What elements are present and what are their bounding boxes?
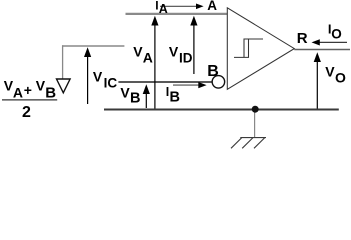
- voltage arrow VIC: [87, 55, 89, 104]
- svg-text:V: V: [36, 77, 46, 93]
- svg-text:A: A: [159, 2, 168, 16]
- current arrow IB: [173, 84, 200, 86]
- wire common-mode bracket vertical: [62, 45, 64, 79]
- svg-text:A: A: [207, 0, 217, 13]
- svg-text:V: V: [93, 68, 103, 84]
- svg-text:B: B: [170, 90, 180, 106]
- current arrow IO: [319, 41, 347, 43]
- svg-text:V: V: [169, 43, 179, 59]
- fraction bar: [2, 99, 57, 101]
- svg-text:V: V: [325, 63, 335, 79]
- current arrow IA: [160, 5, 197, 7]
- voltage arrow VID: [193, 24, 195, 74]
- voltage arrow VB: [145, 92, 147, 108]
- svg-text:ID: ID: [179, 50, 193, 65]
- svg-text:B: B: [130, 90, 140, 106]
- voltage arrow VO: [316, 60, 318, 109]
- svg-text:A: A: [143, 50, 153, 66]
- wire ground stem: [254, 111, 256, 138]
- svg-text:O: O: [335, 69, 346, 85]
- junction dot on ground rail: [252, 106, 259, 113]
- wire input B rail: [118, 81, 211, 83]
- ground symbol: [231, 138, 266, 149]
- svg-text:2: 2: [22, 104, 31, 121]
- wire bottom ground rail: [104, 108, 339, 110]
- svg-text:V: V: [120, 85, 130, 101]
- svg-text:A: A: [13, 84, 23, 100]
- wire common-mode bracket horizontal: [62, 45, 124, 47]
- inverting input bubble at B: [212, 76, 225, 89]
- svg-text:B: B: [207, 63, 219, 80]
- svg-text:V: V: [133, 44, 143, 60]
- wire output rail: [294, 49, 350, 51]
- svg-text:B: B: [45, 84, 56, 101]
- svg-text:IC: IC: [104, 76, 118, 91]
- wire top input A rail: [126, 13, 228, 15]
- open arrow to common-mode node: [57, 79, 71, 93]
- hysteresis symbol inside comparator: [234, 39, 263, 57]
- svg-text:O: O: [331, 27, 342, 42]
- op-amp comparator U1 triangle: [227, 8, 294, 90]
- voltage arrow VA: [154, 24, 156, 109]
- svg-text:+: +: [24, 82, 32, 98]
- svg-text:R: R: [297, 30, 308, 47]
